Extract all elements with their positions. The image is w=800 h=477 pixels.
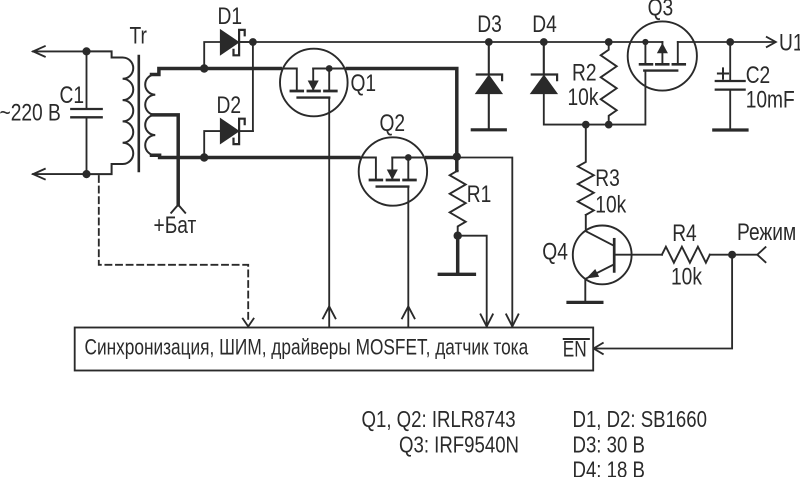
wire: Режим to EN input (595, 255, 733, 349)
ground: C2 (714, 128, 747, 131)
node: common drain junction (453, 153, 461, 161)
transistor Q2 (IRLR8743 N-MOSFET) (359, 137, 427, 205)
node: R2 top on net (605, 38, 613, 46)
transistor Q4 (NPN) (573, 215, 632, 301)
svg-text:EN: EN (563, 337, 587, 361)
transistor Q1 (IRLR8743 N-MOSFET) (280, 49, 348, 117)
wire: AC input bottom lead (33, 173, 86, 175)
wire: current sense from common node to box (457, 158, 513, 328)
svg-text:10k: 10k (671, 262, 702, 290)
resistor R4 (662, 247, 710, 263)
svg-text:U1: U1 (779, 28, 800, 56)
wire: D1 cathode to top net (239, 41, 253, 43)
transformer Tr secondary winding (145, 75, 155, 156)
diode D2 anode lead (204, 131, 220, 157)
wire: current sense from R1 bottom to box (458, 236, 487, 327)
zener D3 (30 В) cathode lead (488, 42, 490, 75)
svg-text:Режим: Режим (737, 218, 796, 246)
resistor R2 (601, 42, 617, 125)
svg-text:Q1, Q2: IRLR8743: Q1, Q2: IRLR8743 (362, 407, 516, 432)
capacitor C1 (71, 51, 101, 174)
zener D4 (531, 75, 557, 94)
ground: D3 (472, 128, 505, 131)
arrow: dashed sync into box (243, 319, 254, 327)
node: R1 bottom junction (454, 232, 462, 240)
terminal arrow: AC input bottom (33, 169, 45, 179)
svg-text:Q4: Q4 (542, 237, 568, 265)
svg-text:D2: D2 (217, 91, 242, 119)
svg-text:R4: R4 (672, 219, 697, 247)
svg-text:C2: C2 (746, 61, 771, 89)
transistor Q3 (IRF9540N P-MOSFET) (628, 21, 697, 90)
transformer Tr primary winding (87, 51, 134, 174)
node: D1 anode on thick bus (200, 64, 208, 72)
EN overline (564, 338, 589, 340)
wire: thick bus Q1 to common node (347, 69, 456, 157)
terminal arrow: Режим (757, 247, 765, 262)
svg-text:D3: D3 (477, 10, 502, 38)
wire: Q4 base lead (614, 254, 662, 256)
svg-text:+Бат: +Бат (154, 211, 197, 239)
wire: D2 cathode (239, 130, 253, 132)
capacitor C2 (polarized 10mF) (716, 68, 745, 128)
svg-text:D4: D4 (532, 10, 557, 38)
ground: R1 (439, 273, 474, 276)
capacitor C2 lead (729, 42, 731, 80)
terminal arrow: U1 output (767, 37, 776, 47)
wire: R1 bottom to ground (thick) (456, 236, 460, 273)
wire: thick bus from secondary top to Q1 (node A) (152, 69, 281, 75)
wire: R4 to Режим terminal (710, 254, 757, 256)
svg-text:D1: D1 (218, 2, 243, 30)
svg-text:10mF: 10mF (746, 86, 795, 114)
transformer Tr core (138, 56, 141, 171)
wire: top net (rectified output rail) (239, 41, 775, 43)
wire: thick bus from secondary bottom to Q2 (152, 155, 359, 157)
arrow: into EN (left) (594, 343, 603, 354)
terminal arrow: AC input top (33, 46, 45, 56)
node: primary top junction (82, 47, 90, 55)
svg-text:Q3: Q3 (648, 0, 674, 21)
node: Q1 source junction (326, 65, 333, 72)
zener D4 (18 В) cathode lead (543, 42, 545, 75)
wire: secondary center tap to +Бат (thick) (152, 115, 178, 205)
svg-text:D1, D2: SB1660: D1, D2: SB1660 (573, 407, 707, 432)
node: Режим junction (728, 251, 736, 259)
svg-text:D3: 30 В: D3: 30 В (573, 433, 645, 458)
node: D2 anode on thick bus (200, 153, 208, 161)
svg-text:Синхронизация, ШИМ, драйверы M: Синхронизация, ШИМ, драйверы MOSFET, дат… (85, 336, 529, 360)
svg-text:Tr: Tr (130, 21, 147, 49)
control box: Синхронизация, ШИМ, драйверы MOSFET, датчик тока (75, 328, 594, 371)
resistor R1 (450, 157, 466, 236)
resistor R3 (578, 125, 594, 215)
arrow: sense input into box (down) (506, 314, 518, 326)
ground: Q4 emitter (568, 301, 602, 304)
svg-text:R3: R3 (595, 164, 620, 192)
svg-text:R1: R1 (467, 180, 492, 208)
wire: dashed sync line from AC to control box (99, 176, 248, 323)
node: C2 on top net (726, 38, 734, 46)
wire: Q1 gate to control box (328, 98, 330, 327)
node: Q2 source junction (405, 154, 412, 161)
wire: Q2 gate to control box (407, 187, 409, 327)
svg-text:Q3: IRF9540N: Q3: IRF9540N (399, 433, 519, 458)
diode D2 (Schottky SB1660) (220, 119, 244, 145)
svg-text:10k: 10k (595, 191, 626, 219)
arrow: gate drive Q2 (up) (402, 306, 415, 318)
terminal arrow: +Бат (171, 205, 185, 213)
svg-text:Q1: Q1 (351, 69, 377, 97)
svg-text:10k: 10k (568, 83, 599, 111)
node: Q3 source junction (642, 39, 648, 45)
diode D1 anode lead (204, 42, 220, 69)
diode D1 (Schottky SB1660) (220, 30, 244, 56)
node: D3 on top net (485, 38, 493, 46)
arrow: gate drive Q1 (up) (323, 306, 336, 318)
node: R3 top junction (582, 121, 590, 129)
arrow: sense input into box (down) (481, 314, 493, 326)
node: D1/D2 cathode junction on top net (249, 38, 257, 46)
wire: D1-D2 cathode link (crosses thick bus) (252, 42, 254, 131)
svg-text:C1: C1 (60, 81, 85, 109)
svg-text:Q2: Q2 (380, 109, 406, 137)
wire: AC input top lead (33, 50, 86, 52)
node: primary bottom junction (82, 170, 90, 178)
zener D3 (476, 75, 502, 129)
svg-text:D4: 18 В: D4: 18 В (573, 458, 645, 477)
svg-text:~220 В: ~220 В (0, 98, 61, 126)
wire: thick bus Q2 to common node (427, 156, 457, 160)
node: D4 on top net (540, 38, 548, 46)
wire: D4 anode / R2 bottom / Q3 gate net (544, 71, 646, 125)
node: R2 bottom junction (605, 121, 613, 129)
